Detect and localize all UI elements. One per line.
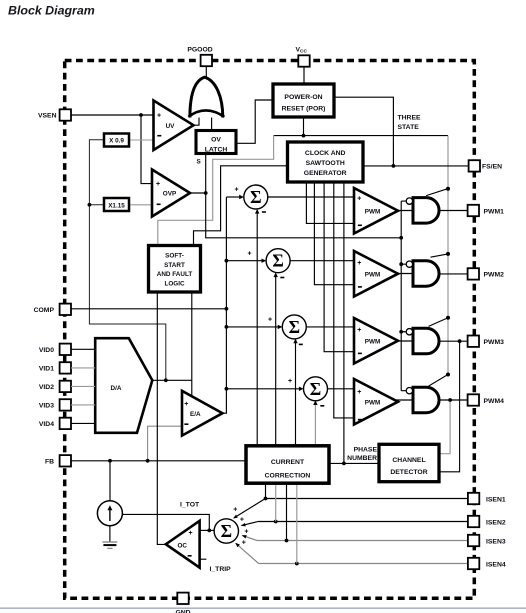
svg-text:SAWTOOTH: SAWTOOTH [306,160,345,167]
pin FB [60,455,71,466]
arrow ISEN1 into sum [233,515,238,519]
svg-text:+: + [157,112,161,119]
arrow sum1 bottom input [255,209,259,214]
wire sum1 output to PWM1+ [268,196,354,198]
svg-text:PWM3: PWM3 [484,339,505,346]
wire ISEN2 line [242,522,469,526]
wire ISEN4 line [236,543,468,563]
svg-text:CORRECTION: CORRECTION [265,473,311,480]
arrow sum3 left input [278,325,283,329]
comparator PWM2 [354,251,398,297]
wire ISEN3 line [242,536,468,541]
node switch1 [446,187,450,191]
node switch3 [446,316,450,320]
arrow sum3 bottom input [293,339,297,344]
wire POR reset to OV latch [236,100,273,143]
wire CC to ISEN2 [275,483,277,521]
svg-text:I_TOT: I_TOT [180,502,200,509]
wire E/A bus to sum2 [226,260,262,262]
arrow ISEN4 into sum [235,543,240,547]
svg-text:D/A: D/A [111,385,122,392]
node FS/EN POR junction [392,164,396,168]
svg-text:PWM: PWM [365,271,381,278]
svg-text:VSEN: VSEN [38,113,57,120]
block SOFT-START AND FAULT LOGIC [149,246,201,293]
wire channel detector sense PWM3 [439,341,460,472]
footer rule [0,607,526,609]
svg-text:Σ: Σ [310,379,321,399]
node disable bus gate2 tap [399,262,403,266]
summer sum3 [268,315,306,345]
pin PWM1 [468,205,479,216]
svg-text:+: + [233,507,237,514]
svg-text:ISEN1: ISEN1 [486,496,506,503]
svg-text:S: S [197,159,201,166]
svg-text:THREE: THREE [398,114,422,121]
svg-text:PGOOD: PGOOD [187,47,212,54]
node X1.15 tap [88,203,92,207]
wire X0.9 out to UV- [129,139,154,141]
wire POR bottom to fault line [303,117,305,136]
pin PGOOD [201,55,212,66]
pin PWM4 [468,394,479,405]
node ISEN3 [285,539,289,543]
wire VSEN to UV+ and OVP+ [71,115,154,184]
dac D/A [95,338,152,433]
svg-text:I_TRIP: I_TRIP [210,566,232,573]
wire PWM1 out to gate1 [396,210,413,212]
pin VSEN [60,109,71,120]
pin VID4 [60,418,71,429]
svg-text:START: START [164,262,185,269]
wire COMP line [71,308,227,310]
wire fault to soft-start logic [158,136,274,246]
wire sum2 output to PWM2+ [290,260,354,262]
svg-text:ISEN4: ISEN4 [486,561,506,568]
wire clock to soft-start logic [194,166,288,246]
wire clock phase to channel detector line [343,182,345,463]
error amp E/A [182,391,223,436]
svg-text:VID2: VID2 [39,384,54,391]
wire E/A bus to sum3 [226,326,279,328]
wire UV output to OR gate [194,112,200,125]
current source OCSET [97,501,122,526]
block CHANNEL DETECTOR [379,444,439,481]
svg-text:VID1: VID1 [39,366,54,373]
comparator OC [166,521,200,568]
svg-text:PWM: PWM [365,399,381,406]
bubble gate3 input [406,329,412,335]
multiplier X1.15 [104,198,129,211]
wire OC- I_TRIP stub [200,558,207,560]
pin PWM2 [468,268,479,279]
wire OVP out to latch S and gate disable line [190,154,401,238]
pin ISEN4 [468,558,479,569]
comparator UV [154,101,194,151]
wire ISEN1 line [234,499,468,518]
comparator OVP [152,170,190,217]
wire VID1 to DAC [71,367,95,369]
node ISEN2 [274,520,278,524]
svg-text:GND: GND [175,609,190,613]
wire VID2 to DAC [71,385,95,387]
summer sum2 [248,249,291,278]
arrow ISEN2 into sum [241,523,246,526]
summer current sum [214,507,248,547]
node disable bus OVP junction [399,236,403,240]
wire E/A bus to sum1 [226,196,240,198]
latch OV LATCH [196,131,236,154]
pin VID1 [60,362,71,373]
svg-text:FS/EN: FS/EN [482,164,502,171]
pin VID3 [60,399,71,410]
wire channel detector sense PWM4 [439,400,450,454]
wire PWM2 out to gate2 [396,273,413,275]
node E/A bus sum3 tap [225,325,229,329]
comparator PWM1 [354,188,398,234]
svg-text:PWM2: PWM2 [484,272,505,279]
block CURRENT CORRECTION [246,446,329,483]
wire switch1 [426,189,447,196]
pin ISEN1 [468,493,479,504]
svg-text:+: + [357,260,361,267]
wire gate4 output to PWM4 pin [439,399,467,401]
svg-text:AND FAULT: AND FAULT [157,271,193,278]
node FB EA tap [146,459,150,463]
summer sum1 [235,185,268,212]
gate AND1 [413,198,439,224]
svg-text:+: + [248,251,252,258]
svg-text:VID3: VID3 [39,403,54,410]
svg-text:+: + [288,378,292,385]
svg-text:+: + [268,317,272,324]
svg-text:VID0: VID0 [39,347,54,354]
block CLOCK AND SAWTOOTH GENERATOR [288,142,364,182]
wire gate3 output to PWM3 pin [439,340,467,342]
pin VID0 [60,344,71,355]
summer sum4 [288,377,328,406]
svg-text:Σ: Σ [272,251,283,271]
svg-text:+: + [357,389,361,396]
svg-text:+: + [244,529,248,536]
node ISEN4 [295,562,299,566]
svg-text:ISEN2: ISEN2 [486,519,506,526]
svg-text:+: + [242,539,246,546]
label THREE STATE [398,114,422,131]
or-gate PGOOD driver [188,77,224,117]
arrow sum1 left input [239,195,244,199]
node ISEN1 [264,497,268,501]
node disable bus gate3 tap [399,330,403,334]
wire sawtooth 4 to PWM4 [334,182,354,418]
wire VID3 to DAC [71,404,95,406]
bubble gate2 input [406,261,412,267]
node PWM4 sense [448,398,452,402]
wire switch3 [429,318,449,327]
svg-text:RESET (POR): RESET (POR) [282,106,326,113]
svg-text:E/A: E/A [190,411,201,418]
node VSEN junction [139,113,143,117]
svg-text:PWM: PWM [365,208,381,215]
node switch2 [446,252,450,256]
multiplier X 0.9 [104,134,129,147]
node switch4 [446,373,450,377]
svg-text:Σ: Σ [250,187,261,207]
node E/A bus sum2 tap [225,259,229,263]
wire FB line [71,460,246,462]
svg-text:+: + [189,530,193,537]
svg-text:CHANNEL: CHANNEL [392,457,425,464]
wire sawtooth 3 to PWM3 [324,182,354,352]
node FB source tap [108,459,112,463]
comparator PWM3 [354,318,398,364]
wire gate1 output to PWM1 pin [439,210,467,212]
svg-text:X1.15: X1.15 [108,202,125,209]
wire I_TOT node to OC+ and sum [200,529,215,531]
wire I_TOT line [122,514,209,530]
svg-text:CURRENT: CURRENT [271,459,305,466]
svg-text:ISEN3: ISEN3 [486,538,506,545]
wire correction to sum4 [314,402,316,446]
wire E/A output bus [223,197,227,413]
wire switch4 [429,375,449,387]
wire fault / three-state horizontal [274,135,448,137]
wire FS/EN line [363,165,469,167]
wire VID0 to DAC [71,348,95,350]
pin ISEN2 [468,516,479,527]
svg-text:DETECTOR: DETECTOR [390,469,427,476]
bubble gate4 input [406,388,412,394]
wire correction to sum2 [275,274,277,446]
wire POR to FS/EN node [334,97,393,166]
wire CC to ISEN4 [296,483,298,563]
svg-text:+: + [184,401,188,408]
svg-text:SOFT-: SOFT- [165,253,184,260]
wire CC to ISEN3 [286,483,288,540]
svg-text:GENERATOR: GENERATOR [304,170,347,177]
node POR fault junction [302,134,306,138]
wire OC output to soft-start [157,292,166,544]
bubble gate1 input [406,198,412,204]
arrow ISEN3 into sum [242,535,247,538]
wire FB to E/A- [148,426,182,461]
wire sawtooth 2 to PWM2 [314,182,354,285]
wire sawtooth 1 to PWM1 [306,182,354,223]
wire switch2 [431,254,449,257]
wire PWM4 out to gate4 [396,399,413,401]
svg-text:VID4: VID4 [39,421,54,428]
svg-text:+: + [235,187,239,194]
wire PWM3 out to gate3 [396,340,413,342]
pin GND [177,593,188,604]
svg-text:+: + [156,181,160,188]
svg-text:+: + [357,327,361,334]
wire sum3 output to PWM3+ [306,326,354,328]
wire soft-start to E/A [191,292,193,397]
gate AND2 [413,261,439,287]
wire FB to current source [109,461,111,502]
pin COMP [60,304,71,315]
svg-text:FB: FB [45,459,54,466]
wire sum4 output to PWM4+ [328,388,355,390]
svg-text:CLOCK AND: CLOCK AND [305,150,346,157]
arrow sum2 left input [262,259,267,263]
svg-text:OC: OC [178,542,188,549]
wire CC to ISEN1 [265,483,267,498]
gate AND3 [413,328,439,354]
svg-text:X 0.9: X 0.9 [109,138,124,145]
pin ISEN3 [468,535,479,546]
arrow sum2 bottom input [274,272,278,277]
gate AND4 [413,387,439,413]
arrow sum4 bottom input [313,400,317,405]
pin VCC [298,55,309,66]
arrow sum4 left input [299,387,304,391]
wire E/A bus to sum4 [226,388,300,390]
node E/A bus sum4 tap [225,387,229,391]
svg-text:PWM: PWM [365,338,381,345]
svg-text:UV: UV [166,123,176,130]
svg-text:Σ: Σ [289,317,300,337]
wire three-state vertical to switches [447,136,449,375]
svg-text:+: + [240,517,244,524]
wire gate disable bus [401,201,406,391]
block POWER-ON RESET (POR) [273,84,334,117]
wire D/A output to E/A+ [152,379,192,381]
svg-text:Σ: Σ [221,521,232,541]
svg-text:Block Diagram: Block Diagram [8,4,95,18]
pin FS/EN [469,160,480,171]
svg-text:PWM4: PWM4 [484,398,505,405]
wire correction to sum3 [295,340,297,445]
svg-text:OV: OV [211,137,221,144]
pin VID2 [60,381,71,392]
svg-text:STATE: STATE [398,124,420,131]
wire correction to sum1 [256,211,258,446]
wire X1.15 out to OVP- [129,204,152,206]
label PHASE NUMBER [347,447,377,462]
svg-text:LOGIC: LOGIC [164,280,185,287]
wire VID4 to DAC [71,422,95,424]
svg-text:PHASE: PHASE [354,447,378,454]
svg-text:POWER-ON: POWER-ON [284,94,322,101]
wire OV latch to OR gate [211,109,213,131]
comparator PWM4 [354,379,398,425]
svg-text:OVP: OVP [163,191,177,198]
node PWM3 sense [458,339,462,343]
node E/A bus COMP tap [225,307,229,311]
wire current source to ground [109,525,111,542]
wire PGOOD stub [205,66,207,78]
node phase number junction [342,462,346,466]
node DAC output junction [164,378,168,382]
node OVP output junction [204,191,208,195]
svg-text:+: + [357,196,361,203]
node I_TOT junction [207,529,211,533]
svg-text:PWM1: PWM1 [484,208,505,215]
svg-text:NUMBER: NUMBER [347,455,377,462]
IC boundary dashed border [65,61,475,599]
wire gate2 output to PWM2 pin [439,273,467,275]
pin PWM3 [468,336,479,347]
ground [102,542,117,548]
svg-text:LATCH: LATCH [205,146,228,153]
svg-text:COMP: COMP [34,307,55,314]
wire phase number line CC to CD [329,462,379,464]
wire VCC to POR [303,67,305,84]
wire DAC reference to X0.9 / X1.15 [89,140,165,380]
